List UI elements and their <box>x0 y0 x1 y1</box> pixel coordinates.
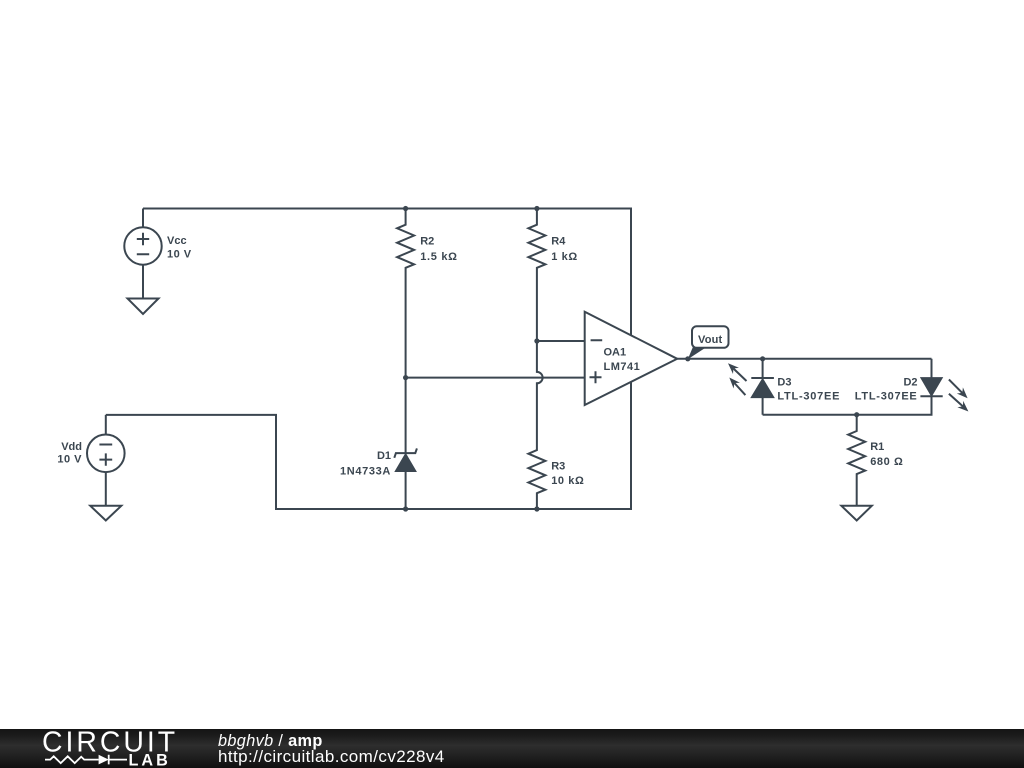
svg-text:10 V: 10 V <box>167 248 192 260</box>
svg-text:R3: R3 <box>551 460 565 472</box>
svg-text:LM741: LM741 <box>604 361 641 373</box>
svg-text:680 Ω: 680 Ω <box>870 456 903 468</box>
svg-text:D2: D2 <box>903 377 917 389</box>
svg-text:R2: R2 <box>420 236 434 248</box>
svg-text:1N4733A: 1N4733A <box>340 465 391 477</box>
svg-text:Vcc: Vcc <box>167 235 187 247</box>
svg-text:LAB: LAB <box>129 752 171 768</box>
svg-text:10 kΩ: 10 kΩ <box>551 475 584 487</box>
svg-text:D3: D3 <box>777 377 791 389</box>
svg-text:LTL-307EE: LTL-307EE <box>855 391 918 403</box>
svg-text:R1: R1 <box>870 441 884 453</box>
svg-text:1 kΩ: 1 kΩ <box>551 251 578 263</box>
svg-text:R4: R4 <box>551 236 566 248</box>
svg-text:Vdd: Vdd <box>61 441 82 453</box>
svg-text:1.5 kΩ: 1.5 kΩ <box>420 251 458 263</box>
svg-text:LTL-307EE: LTL-307EE <box>777 391 840 403</box>
svg-text:Vout: Vout <box>698 334 723 346</box>
svg-text:D1: D1 <box>377 450 391 462</box>
svg-text:OA1: OA1 <box>604 347 627 359</box>
svg-text:10 V: 10 V <box>57 454 82 466</box>
